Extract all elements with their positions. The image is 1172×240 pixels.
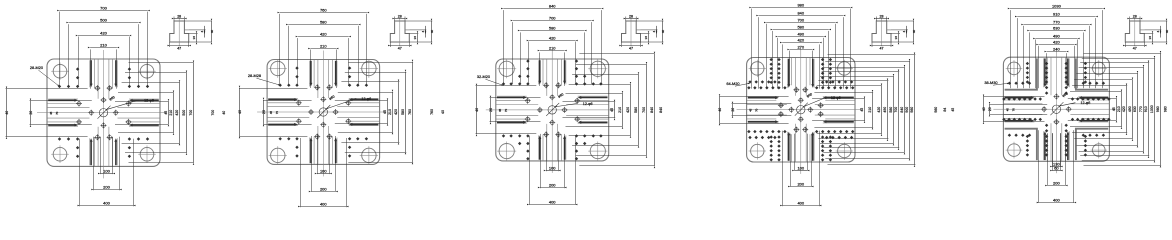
label 12-&#966;6 leader 5 [1059, 92, 1090, 107]
locating ring hole 1 [98, 106, 111, 119]
svg-text:580: 580 [549, 25, 556, 30]
svg-text:400: 400 [320, 201, 327, 206]
svg-text:40: 40 [441, 110, 445, 114]
svg-text:45: 45 [1005, 108, 1009, 112]
dimension 270 top 4 [790, 51, 813, 86]
dimension 420 right 5 [1072, 86, 1127, 133]
dimension 40 left 5 [983, 97, 1045, 122]
tapped holes 3 [525, 82, 581, 137]
svg-text:12-φ6: 12-φ6 [144, 98, 154, 102]
dimension 400 bottom 5 [1039, 130, 1074, 203]
hole pattern diamonds 1 [58, 67, 149, 158]
svg-text:760: 760 [408, 109, 412, 115]
svg-text:12-φ6: 12-φ6 [1081, 101, 1091, 105]
svg-text:40: 40 [5, 111, 9, 115]
svg-text:100: 100 [797, 165, 804, 170]
detail right dims 3 [636, 21, 663, 42]
svg-text:500: 500 [182, 110, 186, 116]
svg-text:100: 100 [549, 165, 556, 170]
svg-text:12-φ6: 12-φ6 [361, 97, 371, 101]
svg-text:28: 28 [177, 14, 181, 18]
T-slot arm lines 3 [496, 59, 609, 161]
dimension 45 right 5 [1068, 99, 1117, 121]
svg-text:700: 700 [642, 107, 646, 113]
tie-bar hole 1.4 [138, 145, 156, 163]
platen plate outline 3 [496, 59, 609, 161]
platen plate outline 5 [1003, 57, 1109, 161]
svg-text:200: 200 [797, 181, 804, 186]
svg-text:47: 47 [880, 47, 884, 51]
svg-text:910: 910 [1053, 11, 1060, 16]
svg-text:210: 210 [549, 45, 556, 50]
svg-text:580: 580 [634, 107, 638, 113]
svg-text:630: 630 [1133, 106, 1137, 112]
centerlines 2 [257, 51, 386, 177]
svg-text:47: 47 [629, 47, 633, 51]
label 12-&#966;6 leader 2 [326, 94, 371, 109]
dimension 490 top 5 [1036, 40, 1078, 89]
svg-text:70: 70 [1011, 108, 1015, 112]
svg-text:580: 580 [889, 107, 893, 113]
svg-text:40: 40 [238, 110, 242, 114]
svg-text:420: 420 [320, 31, 327, 36]
svg-text:400: 400 [103, 200, 110, 205]
locating ring hole 5 [1050, 102, 1063, 115]
svg-text:40: 40 [912, 30, 916, 34]
dimension 580 top 2 [289, 26, 359, 86]
dimension 40 left 3 [476, 86, 537, 134]
tie-bar hole 5.3 [1006, 142, 1023, 159]
svg-text:580: 580 [320, 19, 327, 24]
hole pattern diamonds 4 [747, 58, 854, 162]
tie-bar hole 4.2 [836, 60, 853, 77]
dimension 490 top 4 [778, 38, 824, 89]
svg-text:1030: 1030 [1150, 105, 1154, 113]
svg-text:270: 270 [797, 44, 804, 49]
svg-text:420: 420 [1122, 106, 1126, 112]
tie-bar hole 5.2 [1091, 60, 1108, 77]
svg-text:60: 60 [1054, 165, 1059, 170]
svg-text:16: 16 [1148, 36, 1152, 40]
tie-bar hole 2.4 [360, 146, 378, 164]
dimension 210 right 3 [566, 94, 623, 127]
svg-text:45: 45 [951, 108, 955, 112]
dimension 840 right 3 [579, 54, 654, 166]
svg-text:400: 400 [549, 199, 556, 204]
dimension 490 right 4 [818, 81, 888, 139]
svg-text:420: 420 [549, 35, 556, 40]
dimension 400 bottom 1 [80, 139, 134, 207]
dimension 420 top 4 [783, 44, 820, 88]
dimension 100 bottom 3 [547, 134, 559, 171]
svg-text:100: 100 [320, 168, 327, 173]
svg-text:420: 420 [877, 107, 881, 113]
dimension 420 right 2 [341, 82, 399, 143]
platen plate outline 2 [267, 60, 380, 165]
dimension 1030 right 5 [1082, 59, 1155, 161]
T-slot cross-section detail 2 [390, 18, 409, 46]
svg-text:70: 70 [504, 108, 508, 112]
detail right dims 5 [1140, 21, 1167, 42]
svg-text:45: 45 [383, 110, 387, 114]
svg-text:840: 840 [650, 107, 654, 113]
centerlines 5 [993, 48, 1115, 173]
svg-text:38-M30: 38-M30 [984, 80, 998, 85]
dimension 580 right 4 [820, 77, 894, 144]
svg-text:28-M28: 28-M28 [248, 73, 261, 78]
svg-text:210: 210 [868, 107, 872, 113]
dimension 40 left 2 [239, 89, 307, 137]
svg-text:45: 45 [498, 108, 502, 112]
dimension 130 bottom 5 [1053, 133, 1061, 167]
pad corner brackets 5 [1005, 58, 1109, 160]
svg-text:16: 16 [192, 36, 196, 40]
svg-text:210: 210 [100, 42, 107, 47]
svg-text:200: 200 [320, 186, 327, 191]
svg-text:210: 210 [1117, 106, 1121, 112]
svg-text:420: 420 [626, 107, 630, 113]
svg-text:760: 760 [320, 7, 327, 12]
svg-text:760: 760 [430, 109, 434, 115]
detail dim 47 1 [170, 42, 189, 47]
dimension 840 top 4 [759, 17, 844, 89]
svg-text:420: 420 [394, 109, 398, 115]
dimension 580 right 2 [345, 73, 407, 153]
tie-bar hole 5.1 [1006, 60, 1023, 77]
svg-text:700: 700 [100, 5, 107, 10]
dimension 40 left 1 [6, 89, 88, 137]
T-slot cross-section detail 5 [1125, 18, 1144, 46]
svg-text:40: 40 [718, 108, 722, 112]
svg-text:20: 20 [988, 107, 992, 111]
svg-text:420: 420 [100, 30, 107, 35]
dimension 210 right 2 [338, 93, 393, 133]
detail inner ledge 4 [887, 29, 891, 31]
dimension 700 right 4 [822, 72, 900, 148]
svg-text:210: 210 [320, 43, 327, 48]
svg-text:840: 840 [659, 107, 663, 113]
svg-text:45: 45 [860, 108, 864, 112]
tie-bar hole 3.2 [588, 59, 607, 78]
svg-text:45: 45 [164, 111, 168, 115]
tie-bar hole 3.4 [588, 142, 607, 161]
svg-text:45: 45 [49, 111, 53, 115]
detail dim 47 4 [872, 42, 891, 47]
svg-text:910: 910 [1144, 106, 1148, 112]
T-slot cross-section detail 3 [622, 18, 641, 46]
svg-text:12-φ6: 12-φ6 [831, 96, 841, 100]
dimension 45 right 2 [335, 101, 388, 124]
svg-text:28: 28 [398, 14, 402, 18]
detail dim 28 3 [626, 17, 636, 22]
hole pattern diamonds 5 [1002, 62, 1110, 157]
locating ring hole 4 [795, 103, 808, 116]
dimension 210 top 1 [91, 49, 117, 88]
svg-text:45: 45 [269, 111, 273, 115]
svg-text:28: 28 [629, 14, 633, 18]
tapped holes 5 [1041, 94, 1072, 125]
svg-text:70: 70 [275, 111, 279, 115]
dimension 400 bottom 2 [301, 138, 347, 207]
tie-bar hole 2.1 [269, 59, 287, 78]
svg-text:420: 420 [1053, 39, 1060, 44]
detail inner ledge 1 [184, 29, 188, 31]
detail inner ledge 5 [1140, 29, 1144, 31]
dimension 700 top 3 [513, 22, 592, 84]
svg-text:16: 16 [413, 36, 417, 40]
locating ring hole 3 [546, 103, 559, 116]
svg-text:20: 20 [29, 111, 33, 115]
dimension 840 top 3 [504, 10, 602, 84]
hole pattern diamonds 3 [502, 59, 603, 160]
svg-text:16: 16 [644, 36, 648, 40]
svg-text:70: 70 [755, 108, 759, 112]
svg-text:580: 580 [797, 24, 804, 29]
detail inner ledge 3 [636, 29, 640, 31]
tie-bar hole 2.3 [269, 146, 287, 164]
T-slot arm lines 5 [1003, 57, 1109, 161]
label 64-M20 4 [726, 81, 750, 86]
dimension 45 right 3 [563, 102, 616, 118]
centerlines 3 [486, 50, 615, 173]
svg-text:40: 40 [210, 30, 214, 34]
dimension 100 bottom 4 [795, 134, 808, 171]
svg-text:700: 700 [894, 107, 898, 113]
dimension 490 right 5 [1074, 80, 1132, 139]
dimension 420 top 3 [529, 42, 576, 84]
svg-text:32-M20: 32-M20 [477, 74, 491, 79]
dimension 400 bottom 4 [783, 131, 820, 207]
svg-text:210: 210 [388, 109, 392, 115]
svg-text:980: 980 [1164, 106, 1168, 112]
svg-text:980: 980 [910, 107, 914, 113]
dimension 580 top 3 [521, 32, 585, 84]
svg-text:770: 770 [1053, 19, 1060, 24]
dimension 200 bottom 3 [541, 134, 565, 188]
tie-bar hole 1.3 [51, 145, 69, 163]
T-slot arm lines 1 [47, 59, 160, 166]
tapped holes 2 [296, 84, 352, 139]
dimension 100 bottom 2 [318, 136, 330, 174]
svg-text:210: 210 [618, 107, 622, 113]
svg-text:45: 45 [610, 108, 614, 112]
locating ring hole 2 [317, 105, 330, 118]
svg-text:840: 840 [900, 107, 904, 113]
svg-text:700: 700 [549, 15, 556, 20]
svg-text:200: 200 [1053, 180, 1060, 185]
dimension 60 bottom 5 [1053, 133, 1061, 171]
label 28-M20 1 [30, 65, 60, 86]
svg-text:980: 980 [934, 107, 938, 113]
dimension 210 top 2 [311, 50, 337, 89]
dimension 1030 top 5 [1011, 10, 1103, 88]
svg-text:16: 16 [894, 36, 898, 40]
svg-text:20: 20 [731, 108, 735, 112]
dimension 240 top 5 [1047, 53, 1067, 85]
svg-text:20: 20 [262, 110, 266, 114]
dimension 20 left 3 [490, 98, 541, 122]
slot shading bars 5 [1005, 58, 1109, 160]
slot shading bars 4 [748, 59, 854, 161]
tie-bar hole 4.3 [749, 142, 766, 159]
dimension 40 left 4 [719, 97, 788, 124]
svg-text:770: 770 [1139, 106, 1143, 112]
dimension 420 right 4 [817, 86, 882, 134]
detail right dims 2 [405, 21, 432, 42]
tie-bar hole 4.1 [749, 60, 766, 77]
slot shading bars 1 [48, 60, 159, 165]
T-slot cross-section detail 1 [170, 18, 189, 46]
dimension 210 right 5 [1070, 92, 1122, 127]
svg-text:490: 490 [883, 107, 887, 113]
tapped holes 1 [76, 85, 132, 140]
T-slot cross-section detail 4 [872, 18, 891, 46]
svg-text:47: 47 [1133, 47, 1137, 51]
label 12-&#966;6 leader 4 [803, 92, 840, 107]
svg-text:28-M20: 28-M20 [30, 65, 44, 70]
dimension 420 top 5 [1039, 46, 1075, 88]
detail dim 47 3 [622, 42, 641, 47]
centerlines 1 [37, 50, 166, 178]
svg-text:420: 420 [797, 37, 804, 42]
hole pattern diamonds 2 [279, 66, 369, 157]
detail right dims 1 [184, 21, 211, 42]
svg-text:84: 84 [943, 108, 947, 112]
dimension 210 top 3 [540, 52, 565, 86]
dimension 630 right 5 [1077, 74, 1138, 146]
svg-text:840: 840 [797, 10, 804, 15]
svg-text:900: 900 [905, 107, 909, 113]
slot shading bars 3 [497, 60, 608, 160]
dimension 45 right 1 [115, 102, 169, 125]
T-slot arm lines 4 [747, 58, 855, 162]
detail dim 28 5 [1130, 17, 1140, 22]
label 32-M20 3 [477, 74, 504, 86]
dimension 700 right 3 [576, 65, 647, 156]
svg-text:64-M20: 64-M20 [726, 81, 740, 86]
svg-text:40: 40 [430, 30, 434, 34]
svg-text:28: 28 [1133, 14, 1137, 18]
svg-text:700: 700 [211, 110, 215, 116]
detail dim 47 2 [390, 42, 409, 47]
dimension 980 right 4 [828, 55, 916, 165]
svg-text:200: 200 [549, 182, 556, 187]
dimension 910 top 5 [1018, 18, 1096, 88]
svg-text:400: 400 [797, 200, 804, 205]
dimension 770 right 5 [1079, 68, 1144, 152]
svg-text:45: 45 [1112, 107, 1116, 111]
platen plate outline 1 [47, 59, 160, 166]
svg-text:490: 490 [1053, 33, 1060, 38]
svg-text:490: 490 [1128, 106, 1132, 112]
svg-text:490: 490 [797, 31, 804, 36]
dimension 420 right 3 [569, 85, 631, 136]
platen plate outline 4 [747, 58, 855, 163]
svg-text:400: 400 [1053, 197, 1060, 202]
dimension 200 bottom 5 [1048, 133, 1066, 185]
dimension 770 top 5 [1024, 26, 1090, 88]
svg-text:20: 20 [489, 108, 493, 112]
tie-bar hole 4.4 [836, 142, 853, 159]
dimension 980 right 5 [1084, 54, 1162, 166]
svg-text:45: 45 [749, 108, 753, 112]
tie-bar hole 5.4 [1091, 142, 1108, 159]
slot shading bars 2 [268, 61, 378, 163]
label 38-M30 5 [984, 80, 1009, 85]
detail dim 28 2 [395, 17, 405, 22]
svg-text:40: 40 [661, 30, 665, 34]
detail dim 28 1 [174, 17, 184, 22]
svg-text:12-φ6: 12-φ6 [583, 102, 593, 106]
dimension 580 right 3 [572, 75, 639, 146]
svg-text:47: 47 [398, 47, 402, 51]
svg-text:40: 40 [475, 108, 479, 112]
tie-bar hole 2.2 [360, 59, 378, 78]
dimension 580 top 4 [773, 31, 829, 89]
svg-text:200: 200 [103, 184, 110, 189]
dimension 20 left 4 [732, 104, 792, 116]
svg-text:980: 980 [1156, 106, 1160, 112]
dimension 700 top 1 [60, 12, 148, 87]
dimension 20 left 1 [30, 101, 92, 125]
svg-text:580: 580 [401, 109, 405, 115]
dimension 420 top 1 [79, 37, 130, 87]
detail dim 47 5 [1125, 42, 1144, 47]
svg-text:47: 47 [177, 47, 181, 51]
svg-text:70: 70 [55, 111, 59, 115]
svg-text:240: 240 [1053, 46, 1060, 51]
svg-text:28: 28 [880, 14, 884, 18]
detail inner ledge 2 [405, 29, 409, 31]
svg-text:40: 40 [222, 111, 226, 115]
dimension 420 right 1 [122, 83, 180, 144]
dimension 980 top 4 [752, 9, 851, 89]
svg-text:840: 840 [549, 3, 556, 8]
dimension 500 right 1 [125, 73, 187, 153]
tie-bar hole 1.2 [138, 62, 156, 80]
tie-bar hole 3.3 [497, 142, 516, 161]
svg-text:980: 980 [797, 2, 804, 7]
detail dim 28 4 [876, 17, 886, 22]
svg-text:630: 630 [1053, 25, 1060, 30]
centerlines 4 [737, 49, 861, 174]
svg-text:420: 420 [175, 110, 179, 116]
label 12-&#966;6 leader 1 [106, 95, 154, 110]
dimension 700 right 1 [129, 63, 194, 163]
svg-text:700: 700 [797, 17, 804, 22]
dimension 210 right 1 [118, 93, 174, 133]
svg-text:1030: 1030 [1052, 3, 1062, 8]
dimension 20 left 5 [989, 105, 1047, 115]
T-slot arm lines 2 [267, 60, 380, 165]
dimension 210 right 4 [814, 93, 873, 128]
svg-text:40: 40 [1165, 30, 1169, 34]
svg-text:100: 100 [103, 168, 110, 173]
dimension 200 bottom 1 [94, 137, 120, 191]
svg-text:700: 700 [189, 110, 193, 116]
dimension 500 top 1 [69, 24, 139, 86]
dimension 630 top 5 [1030, 32, 1084, 88]
label 12-&#966;6 leader 3 [555, 92, 593, 107]
svg-text:210: 210 [169, 110, 173, 116]
detail right dims 4 [887, 21, 914, 42]
svg-text:40: 40 [982, 107, 986, 111]
dimension 700 top 4 [767, 24, 836, 89]
dimension 200 bottom 2 [312, 136, 336, 192]
dimension 400 bottom 3 [530, 136, 576, 205]
dimension 420 top 2 [298, 38, 349, 86]
dimension 45 right 4 [812, 99, 865, 121]
